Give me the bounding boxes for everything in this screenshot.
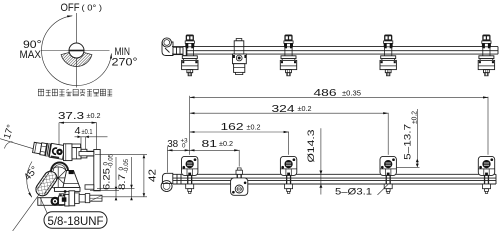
- balloon 5/8-18UNF: [40, 197, 107, 228]
- rail tube: [172, 47, 498, 55]
- injector V4: [478, 35, 494, 76]
- plate P2 (below rail): [231, 168, 248, 195]
- screw head (valve): [69, 43, 84, 58]
- injector V1: [182, 35, 198, 76]
- svg-text:5–Ø3.1: 5–Ø3.1: [335, 186, 372, 197]
- rail tube (plan): [173, 174, 496, 184]
- svg-text:±0.35: ±0.35: [342, 90, 361, 97]
- svg-text:±0.2: ±0.2: [247, 124, 261, 131]
- svg-text:±0.2: ±0.2: [87, 113, 101, 120]
- horizontal axis line: [41, 50, 110, 52]
- valve body top port: [64, 144, 81, 161]
- dim 324: [190, 104, 389, 155]
- svg-text:( 0° ): ( 0° ): [82, 2, 103, 12]
- body dome: [51, 163, 68, 171]
- svg-text:37.3: 37.3: [58, 111, 85, 122]
- dim 4: [75, 126, 108, 149]
- svg-text:±0.1: ±0.1: [82, 129, 93, 136]
- svg-text:±0.2: ±0.2: [411, 111, 418, 124]
- mounting bracket: [79, 150, 100, 191]
- injector V3: [380, 35, 396, 76]
- dim 37.3: [58, 111, 101, 150]
- right outlet pipe (top): [72, 148, 95, 159]
- svg-text:±0.2: ±0.2: [219, 141, 233, 148]
- svg-text:0: 0: [182, 143, 186, 150]
- center mounting block: [233, 39, 247, 75]
- lower nozzle grip (hatched capsule, 55° tilted): [33, 169, 59, 199]
- dim 81: [190, 139, 240, 167]
- dim 42: [95, 155, 158, 197]
- inlet elbow (plan): [161, 173, 181, 191]
- svg-text:270°: 270°: [112, 56, 138, 68]
- svg-text:Ø14.3: Ø14.3: [306, 130, 316, 163]
- label MIN 270°: [112, 46, 138, 68]
- svg-text:8.7: 8.7: [117, 174, 127, 190]
- svg-text:42: 42: [147, 168, 158, 182]
- hatched sector: [61, 52, 92, 66]
- dim 8.7: [97, 157, 135, 200]
- dim 38: [167, 137, 190, 172]
- vertical axis line: [76, 13, 78, 88]
- bottom outlet 5/8-18UNF stud: [59, 191, 102, 206]
- svg-text:6.25: 6.25: [102, 168, 112, 190]
- svg-text:324: 324: [272, 104, 296, 115]
- dim 6.25: [90, 153, 147, 200]
- svg-text:5–13.7: 5–13.7: [403, 124, 413, 160]
- svg-text:MAX: MAX: [20, 49, 42, 61]
- inlet elbow fitting: [162, 38, 187, 56]
- svg-text:±0.2: ±0.2: [298, 106, 312, 113]
- lower-left port knob: [38, 194, 66, 206]
- svg-text:486: 486: [314, 88, 338, 99]
- svg-text:5/8-18UNF: 5/8-18UNF: [48, 214, 104, 228]
- dim Ø14.3: [306, 128, 322, 194]
- dim 486: [190, 88, 488, 155]
- svg-text:-0.05: -0.05: [108, 153, 115, 168]
- bottom flange: [55, 188, 81, 193]
- body bell (right): [63, 170, 80, 187]
- label OFF (0°): [61, 2, 103, 14]
- dim 5-13.7: [397, 109, 420, 167]
- plate P4: [380, 156, 396, 193]
- dim 162: [190, 122, 289, 155]
- 17° reference line and label: [0, 123, 43, 151]
- 45° reference line, arc and label: [13, 162, 48, 232]
- svg-text:4: 4: [75, 126, 81, 137]
- upper nozzle (17° tilted): [32, 141, 65, 160]
- spoked wheel (body center): [47, 167, 69, 189]
- plate P5: [478, 156, 494, 193]
- svg-text:-0.05: -0.05: [123, 158, 130, 173]
- svg-text:38: 38: [167, 139, 178, 150]
- rotation arc with arrows: [42, 16, 112, 86]
- label 90° MAX: [20, 39, 42, 61]
- svg-text:81: 81: [202, 139, 218, 150]
- plate P1: [182, 156, 198, 193]
- svg-text:OFF: OFF: [61, 2, 80, 14]
- svg-text:162: 162: [221, 122, 245, 133]
- caption 閥的旋轉角度與流量關系圖 (vector fake CJK glyphs): [38, 89, 112, 96]
- label 5-Ø3.1 with leader: [335, 183, 389, 197]
- injector V2: [280, 35, 296, 76]
- plate P3: [280, 156, 296, 193]
